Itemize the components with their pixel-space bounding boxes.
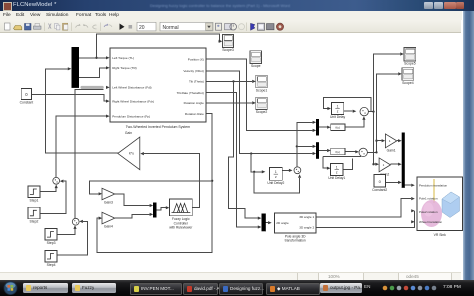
svg-text:Gain3: Gain3 <box>104 201 113 205</box>
svg-text:VR Sink: VR Sink <box>434 233 447 237</box>
svg-text:Step1: Step1 <box>30 198 39 202</box>
svg-text:Constant: Constant <box>20 100 34 104</box>
svg-text:Pendulum translation: Pendulum translation <box>419 183 448 187</box>
svg-text:Step2: Step2 <box>30 220 39 224</box>
svg-text:20: 20 <box>139 25 145 31</box>
svg-text:Tilt-Rate (ThetaDot): Tilt-Rate (ThetaDot) <box>177 91 204 95</box>
svg-text:Right Wheel Disturbance (Fdr): Right Wheel Disturbance (Fdr) <box>112 99 154 103</box>
svg-text:Velocity (XDot): Velocity (XDot) <box>183 69 203 73</box>
svg-text:z: z <box>275 175 277 179</box>
svg-text:Unit Delay1: Unit Delay1 <box>328 176 345 180</box>
svg-text:K*u: K*u <box>129 152 134 156</box>
svg-text:Gain: Gain <box>125 131 132 135</box>
svg-text:Left Torque (TL): Left Torque (TL) <box>112 56 134 60</box>
svg-text:1: 1 <box>336 166 338 170</box>
svg-text:Normal: Normal <box>163 25 179 31</box>
svg-text:Step3: Step3 <box>47 241 56 245</box>
svg-text:Scope4: Scope4 <box>402 81 414 85</box>
svg-text:Two-Wheeled Inverted Pendulum: Two-Wheeled Inverted Pendulum System <box>126 125 190 129</box>
svg-text:Constant2: Constant2 <box>372 188 387 192</box>
svg-text:Right Torque (TR): Right Torque (TR) <box>112 66 137 70</box>
svg-text:Rotation Rate: Rotation Rate <box>185 112 204 116</box>
svg-text:Scope2: Scope2 <box>256 110 268 114</box>
svg-text:Scope1: Scope1 <box>256 88 268 92</box>
svg-text:2D angle: 2D angle <box>276 221 289 225</box>
svg-text:1: 1 <box>337 105 339 109</box>
svg-text:Scope: Scope <box>251 64 261 68</box>
svg-text:Pole2 rotation: Pole2 rotation <box>419 210 438 214</box>
svg-text:Pendulum Disturbance (Fp): Pendulum Disturbance (Fp) <box>112 114 150 118</box>
svg-text:Unit Delay2: Unit Delay2 <box>267 181 284 185</box>
svg-text:Left Wheel Disturbance (Fdl): Left Wheel Disturbance (Fdl) <box>112 86 151 90</box>
svg-text:Scope3: Scope3 <box>222 48 234 52</box>
svg-text:Position (X): Position (X) <box>188 57 204 61</box>
svg-text:z: z <box>337 110 339 114</box>
svg-text:Scope5: Scope5 <box>404 62 416 66</box>
svg-text:Tilt (Theta): Tilt (Theta) <box>189 80 204 84</box>
svg-text:3D angle 1: 3D angle 1 <box>299 215 314 219</box>
svg-text:Gain1: Gain1 <box>387 149 396 153</box>
svg-text:3D angle 2: 3D angle 2 <box>299 226 314 230</box>
svg-text:Unit Delay: Unit Delay <box>330 115 346 119</box>
svg-text:1: 1 <box>275 170 277 174</box>
svg-text:with Ruleviewer: with Ruleviewer <box>169 226 193 230</box>
svg-text:transformation: transformation <box>285 239 306 243</box>
svg-text:f(u): f(u) <box>336 126 341 130</box>
svg-text:Wheel translation: Wheel translation <box>419 220 443 224</box>
svg-text:f(u): f(u) <box>336 150 341 154</box>
svg-text:Pole1 rotation: Pole1 rotation <box>419 197 438 201</box>
svg-text:Gain4: Gain4 <box>104 225 113 229</box>
svg-text:Step4: Step4 <box>47 263 56 267</box>
svg-text:z: z <box>336 171 338 175</box>
svg-text:Rotation Angle: Rotation Angle <box>184 101 204 105</box>
